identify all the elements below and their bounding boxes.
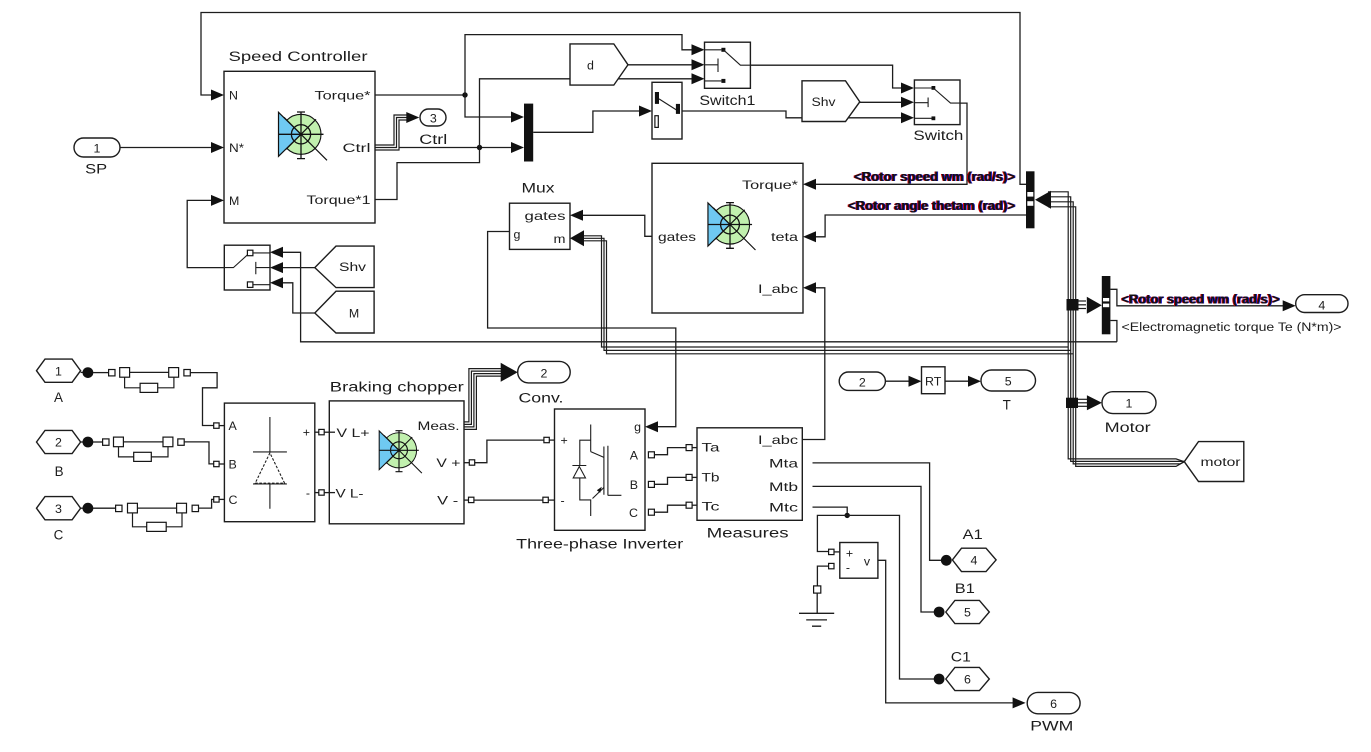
svg-text:g: g [514, 228, 521, 242]
svg-text:Braking chopper: Braking chopper [330, 380, 465, 395]
svg-text:B: B [55, 464, 64, 479]
svg-text:M: M [349, 307, 359, 321]
wire inverter B to Tb [648, 474, 697, 487]
svg-text:PWM: PWM [1030, 719, 1073, 734]
wire I_abc input [802, 282, 825, 439]
RLC branch C [81, 503, 199, 532]
svg-text:gates: gates [525, 209, 566, 223]
wire C to rectifier [199, 497, 225, 508]
junction Torque* [462, 92, 467, 97]
svg-text:B: B [229, 458, 237, 472]
wire Manual Switch out to Switch in3 [682, 111, 914, 123]
bus tap to demux [1067, 297, 1102, 314]
svg-text:3: 3 [430, 112, 437, 126]
wire demux out 2 (Te) [1110, 321, 1117, 342]
block DTC controller [652, 163, 803, 313]
svg-text:Ta: Ta [702, 441, 720, 455]
svg-text:v: v [864, 555, 871, 569]
wire Shv to Switch in2 [860, 97, 914, 108]
icon motor (Speed Controller) [279, 112, 328, 160]
input port 3 C [37, 497, 81, 543]
wire branch up to Switch1 in3 [480, 73, 705, 147]
svg-text:1: 1 [94, 142, 101, 156]
svg-text:6: 6 [964, 673, 971, 687]
wire d to Switch1 in2 [628, 59, 705, 70]
svg-text:d: d [587, 58, 594, 72]
icon motor (chopper) [379, 431, 422, 474]
svg-text:Mtb: Mtb [769, 480, 798, 494]
wire Mux out to Manual Switch [533, 106, 652, 133]
block Mux (gates,m) [510, 181, 571, 250]
wire Mtb to B1 [813, 486, 945, 617]
svg-text:gates: gates [658, 230, 696, 244]
From tag Shv (lower) [315, 246, 374, 288]
svg-text:5: 5 [964, 606, 971, 620]
svg-text:6: 6 [1050, 697, 1057, 711]
block Manual Switch [652, 82, 682, 139]
wire Torque* branch down to Mux in1 [465, 95, 524, 123]
svg-text:4: 4 [1318, 298, 1325, 312]
block Braking chopper [329, 380, 464, 524]
svg-text:A1: A1 [963, 527, 983, 542]
svg-text:<Rotor speed wm (rad/s)>: <Rotor speed wm (rad/s)> [854, 170, 1015, 184]
svg-text:C: C [229, 493, 238, 507]
svg-text:2: 2 [859, 376, 866, 390]
wire speed feedback loop (top) [201, 13, 1026, 185]
svg-text:Measures: Measures [707, 525, 789, 540]
wire Mtc to C1 [847, 515, 944, 684]
input port SP (1) [74, 138, 120, 176]
svg-text:V L-: V L- [336, 487, 364, 501]
junction Ctrl branch [477, 145, 482, 150]
svg-text:Torque*1: Torque*1 [307, 193, 371, 207]
wire rectifier + to V L+ [315, 429, 335, 434]
svg-text:Mux: Mux [522, 181, 555, 196]
svg-text:V L+: V L+ [337, 426, 370, 440]
input port 2 B [37, 430, 81, 479]
svg-text:Switch1: Switch1 [699, 93, 755, 108]
wire V+ to inverter + [464, 437, 555, 465]
svg-text:I_abc: I_abc [758, 433, 798, 447]
block Switch [913, 80, 963, 143]
svg-text:Shv: Shv [339, 260, 367, 274]
output port 6 C1 [946, 650, 990, 691]
output port 4 A1 [952, 527, 996, 572]
svg-text:<Rotor angle thetam (rad)>: <Rotor angle thetam (rad)> [848, 199, 1015, 213]
ground [799, 586, 834, 626]
svg-text:Switch: Switch [913, 128, 963, 143]
svg-text:+: + [846, 547, 853, 561]
svg-text:Torque*: Torque* [742, 178, 798, 192]
svg-text:C: C [629, 506, 638, 520]
wire teta input [803, 215, 1026, 242]
block RT (rate transition) [922, 367, 946, 394]
wire bus into selector 1 [1035, 191, 1184, 467]
block Measures [697, 428, 802, 541]
demux bar 2 [1102, 276, 1111, 334]
icon IGBT bridge [572, 425, 621, 517]
svg-text:2: 2 [541, 366, 548, 380]
wire M to switch in3 [270, 277, 315, 313]
wire Shv to switch in2 [270, 262, 315, 273]
wire bus Ctrl to port 3 [375, 112, 419, 150]
bus selector bar 1 [1026, 171, 1035, 228]
RLC branch A [81, 367, 191, 392]
input port 2 (torque ref) [839, 372, 885, 390]
block Three-phase Inverter [516, 409, 684, 551]
svg-text:Motor: Motor [1105, 420, 1152, 435]
output port 3 Ctrl [419, 109, 447, 147]
wire g out to inverter gate [488, 232, 676, 433]
wire Mtc to voltage measurement + [817, 515, 847, 554]
svg-text:Speed Controller: Speed Controller [229, 49, 369, 64]
output port 5 B1 [946, 581, 990, 624]
wire A to rectifier [190, 373, 224, 429]
svg-text:RT: RT [925, 375, 942, 389]
svg-text:Tc: Tc [702, 499, 720, 513]
wire to RT [885, 376, 921, 387]
svg-text:B1: B1 [955, 581, 975, 596]
wire Switch out to Torque* input [803, 103, 967, 190]
svg-text:5: 5 [1005, 375, 1012, 389]
wire gates from DTC block [570, 210, 652, 237]
svg-text:V -: V - [437, 494, 458, 508]
wire B to rectifier [184, 442, 224, 467]
bus tap to Motor port [1066, 395, 1102, 410]
svg-text:Ctrl: Ctrl [343, 141, 371, 155]
svg-text:M: M [229, 194, 239, 208]
output port 6 PWM [1027, 692, 1080, 733]
wire Mtc junction [813, 507, 850, 518]
wire bus Meas to Conv port [464, 363, 518, 430]
svg-text:2: 2 [55, 436, 62, 450]
wire demux out 1 to port 4 [1110, 289, 1295, 311]
wire RT to port 5 [945, 376, 981, 387]
output port 2 Conv [518, 361, 571, 405]
svg-text:motor: motor [1201, 455, 1241, 469]
switch block (mirrored) under Speed Controller [224, 245, 270, 290]
svg-text:Torque*: Torque* [315, 88, 371, 102]
wire v out to PWM port [878, 560, 1026, 708]
svg-text:Meas.: Meas. [418, 419, 460, 433]
block Switch1 [699, 42, 755, 108]
output port 5 T [981, 370, 1036, 413]
svg-text:Mtc: Mtc [769, 501, 798, 515]
icon motor (DTC) [708, 203, 756, 250]
svg-text:V +: V + [436, 456, 460, 470]
wire Torque*1 to junction [375, 148, 480, 200]
wire SP to N* [120, 142, 224, 153]
svg-text:Three-phase Inverter: Three-phase Inverter [516, 536, 684, 551]
svg-text:N*: N* [229, 141, 244, 155]
svg-text:Mta: Mta [769, 456, 798, 470]
svg-text:<Electromagnetic torque Te (N*: <Electromagnetic torque Te (N*m)> [1122, 320, 1342, 334]
icon diode [253, 417, 287, 509]
wire V- to inverter - [464, 497, 555, 502]
wire rectifier - to V L- [315, 490, 335, 495]
svg-text:C1: C1 [951, 650, 971, 665]
svg-text:Ctrl: Ctrl [419, 132, 447, 147]
Goto tag motor [1184, 442, 1244, 482]
svg-text:Conv.: Conv. [519, 391, 564, 406]
output port 4 [1296, 295, 1348, 313]
svg-text:teta: teta [771, 230, 798, 244]
output port 1 Motor [1102, 392, 1156, 435]
svg-text:B: B [630, 478, 638, 492]
svg-text:A: A [630, 449, 639, 463]
svg-text:A: A [229, 419, 238, 433]
From tag Shv (upper) [802, 81, 860, 122]
svg-text:-: - [561, 494, 565, 508]
svg-text:<Rotor speed wm (rad/s)>: <Rotor speed wm (rad/s)> [1122, 292, 1280, 306]
svg-text:Tb: Tb [702, 471, 720, 485]
svg-text:+: + [561, 434, 568, 448]
svg-text:3: 3 [55, 502, 62, 516]
wire Mta to A1 [813, 463, 952, 566]
wire Switch1 out to Switch in1 [750, 65, 914, 93]
wire Ctrl branch to Mux in2 [399, 142, 524, 153]
block Speed Controller [224, 49, 375, 223]
svg-text:1: 1 [1126, 397, 1133, 411]
svg-text:N: N [229, 88, 238, 102]
svg-text:-: - [846, 561, 850, 575]
RLC branch B [81, 437, 185, 462]
svg-text:4: 4 [971, 554, 978, 568]
input port 1 A [37, 359, 81, 405]
wire Te signal to switch in1 (long) [270, 247, 1117, 342]
block diode rectifier [224, 403, 314, 522]
svg-text:m: m [554, 232, 566, 246]
wire inverter A to Ta [648, 445, 697, 458]
block voltage measurement v [840, 543, 878, 579]
svg-text:A: A [54, 390, 63, 405]
wire bus m input [570, 230, 1073, 353]
svg-text:SP: SP [85, 161, 107, 176]
wire Torque* out [375, 94, 465, 96]
wire Torque* branch up to Switch1 in1 [465, 35, 705, 95]
svg-text:1: 1 [55, 364, 62, 378]
svg-text:I_abc: I_abc [758, 282, 798, 296]
svg-text:T: T [1003, 398, 1011, 413]
svg-text:Shv: Shv [812, 95, 837, 109]
From tag d [570, 44, 628, 85]
From tag M [315, 291, 374, 333]
svg-text:+: + [303, 426, 310, 440]
svg-text:g: g [634, 420, 641, 434]
svg-text:-: - [306, 486, 310, 500]
wire switch out to M input [187, 195, 224, 268]
wire v- to ground [817, 563, 834, 586]
wire inverter C to Tc [648, 502, 697, 515]
svg-text:C: C [54, 528, 64, 543]
Mux bar [524, 104, 533, 162]
